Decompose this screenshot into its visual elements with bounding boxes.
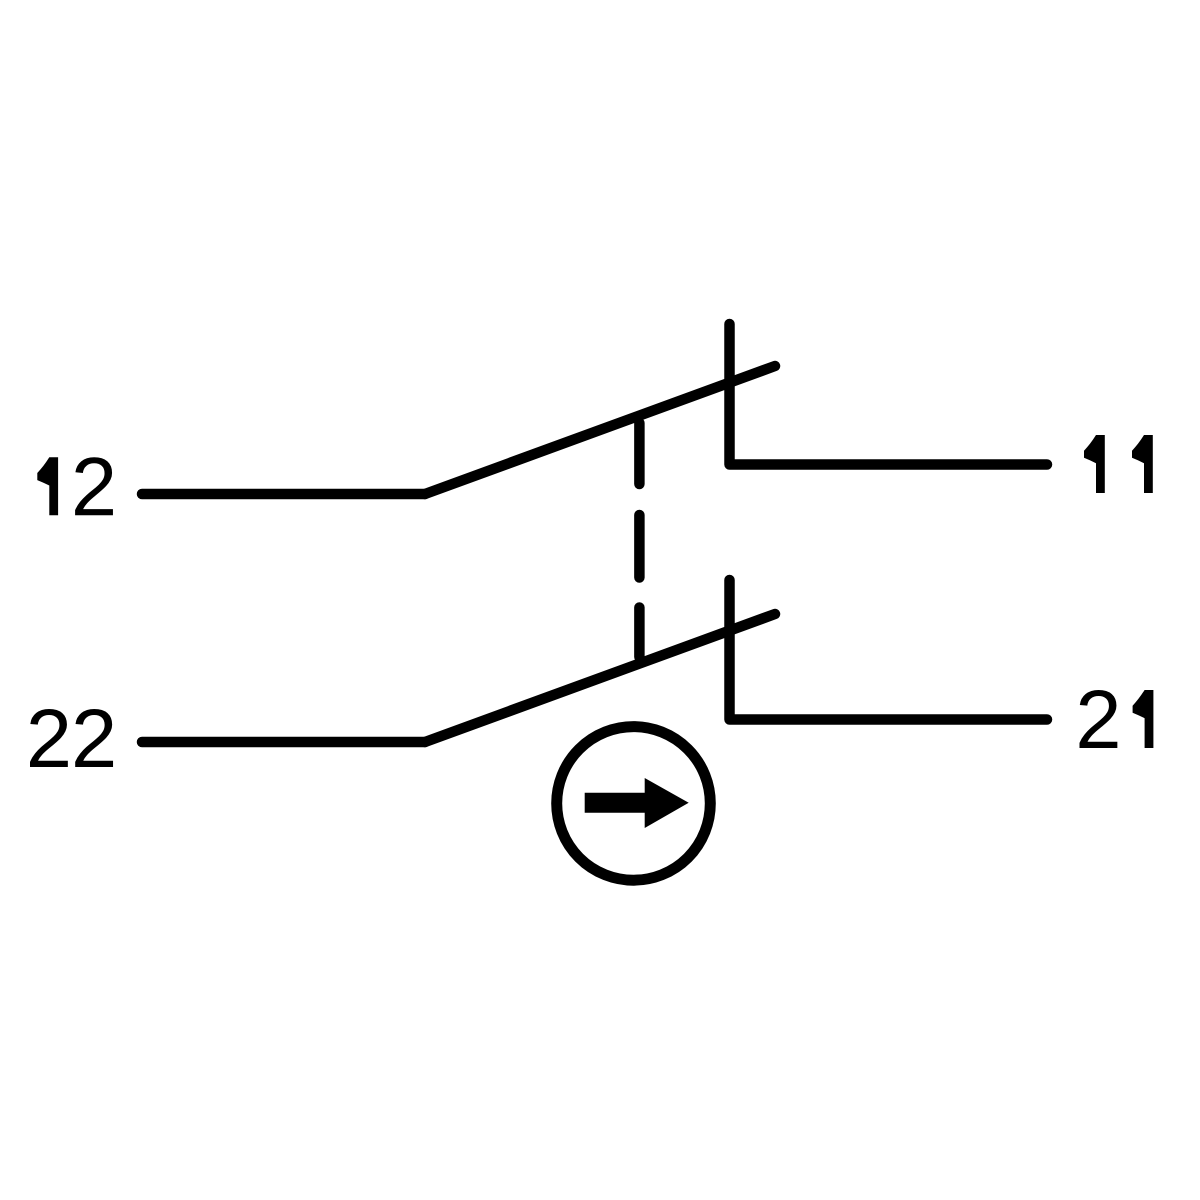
terminal label 12	[37, 457, 113, 515]
mechanical linkage dash 3	[634, 608, 645, 658]
actuator direction arrow	[585, 778, 689, 828]
mechanical linkage dash 1	[634, 423, 645, 484]
terminal label 22	[30, 709, 113, 767]
contact 2 moving arm	[425, 614, 775, 742]
contact 1 fixed bar and wire: terminal 11 lead	[730, 324, 1048, 465]
terminal label 11	[1084, 435, 1153, 493]
contact 1 moving arm	[425, 366, 775, 494]
terminal label 21	[1080, 690, 1154, 748]
actuator circle	[557, 727, 711, 881]
contact 2 fixed bar and wire: terminal 21 lead	[730, 580, 1048, 720]
wire: terminal 12 lead	[142, 489, 425, 500]
wire: terminal 22 lead	[142, 737, 425, 748]
mechanical linkage dash 2	[634, 515, 645, 578]
